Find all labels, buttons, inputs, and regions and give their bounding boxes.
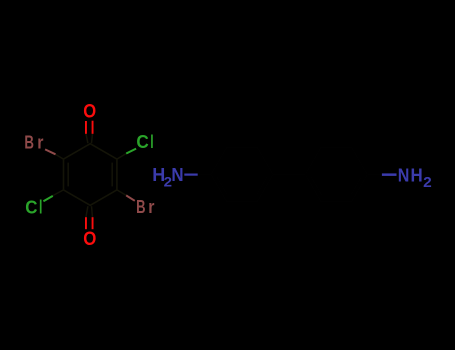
svg-text:N: N: [171, 165, 183, 185]
svg-text:C: C: [25, 198, 37, 218]
svg-text:C: C: [136, 132, 148, 152]
bond N-C (left, blue half): [184, 174, 197, 176]
ring B inner double-bond lines (ultra-faint): [311, 152, 361, 196]
bond C4=O2 double bond (red half): [85, 217, 94, 229]
bond C1=O1 carbon-side halves (faint): [86, 134, 93, 144]
bromine Br (top-left substituent label, maroon): [24, 133, 43, 153]
bond C5=C6 inner double-bond line (faint): [111, 163, 113, 187]
bond ringA-ringB biphenyl link (ultra-faint): [273, 174, 305, 176]
bond C5-Br (maroon half): [126, 195, 135, 200]
svg-text:O: O: [83, 102, 96, 123]
amine NH2 (right amino group of benzidine, blue): [398, 166, 432, 191]
bond N-C carbon-side half right (ultra-faint): [367, 174, 382, 176]
bond N-C carbon-side half left (ultra-faint): [198, 174, 211, 176]
svg-text:N: N: [398, 166, 410, 186]
svg-text:l: l: [150, 132, 153, 152]
chlorine Cl (bottom-left substituent label, green): [25, 198, 42, 219]
bond C2=C3 inner double-bond line (faint): [67, 163, 69, 187]
quinone ring C1-C6 (faint dark skeleton hexagon): [64, 144, 117, 206]
svg-text:B: B: [136, 197, 145, 217]
benzene ring B of benzidine (ultra-faint): [305, 148, 367, 202]
bond C3-Cl carbon-side half (faint): [53, 190, 64, 196]
bond C6-Cl carbon-side half (faint): [117, 154, 126, 160]
amine H2N (left amino group of benzidine, blue): [152, 165, 183, 189]
svg-text:H: H: [411, 166, 423, 186]
bond C2-Br (maroon half): [45, 149, 55, 154]
bond C4=O2 carbon-side halves (faint): [86, 206, 93, 217]
svg-text:r: r: [37, 133, 43, 153]
bond C1=O1 double bond (red half): [85, 121, 94, 134]
bond C2-Br carbon-side half (faint): [55, 154, 64, 159]
benzene ring A of benzidine (ultra-faint): [211, 148, 273, 202]
chlorine Cl (top-right substituent label, green): [136, 132, 153, 152]
svg-text:O: O: [83, 229, 96, 250]
ring A inner double-bond lines (ultra-faint): [217, 152, 267, 196]
svg-text:B: B: [24, 133, 34, 153]
bond N-C (right, blue half): [382, 173, 397, 176]
bond C3-Cl (green half): [43, 196, 52, 201]
svg-text:2: 2: [423, 175, 432, 191]
svg-text:r: r: [148, 197, 154, 217]
svg-text:l: l: [39, 198, 42, 219]
bond C6-Cl (green half): [126, 149, 136, 154]
bond C5-Br carbon-side half (faint): [117, 190, 126, 196]
bromine Br (bottom-right substituent label, maroon): [136, 197, 154, 217]
